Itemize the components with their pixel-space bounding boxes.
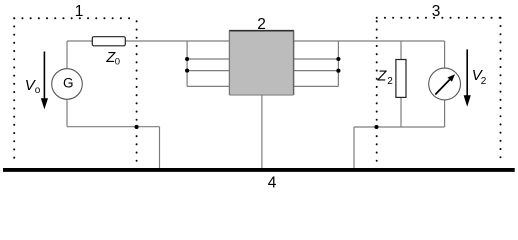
load voltage arrow V2 <box>466 49 468 97</box>
wire: Z2 bottom vertical <box>400 97 402 127</box>
wire: generator top vertical <box>66 41 68 68</box>
voltmeter U <box>429 68 461 100</box>
two-port network block 2 <box>229 31 293 95</box>
wire: right bottom return <box>354 126 445 128</box>
svg-text:2: 2 <box>481 76 487 87</box>
wire: right stub vertical <box>337 41 339 86</box>
svg-text:3: 3 <box>432 3 441 20</box>
wire: left port line 3 <box>187 70 229 72</box>
svg-text:Z: Z <box>377 69 388 85</box>
svg-text:2: 2 <box>387 76 393 87</box>
wire: left stub vertical <box>186 41 188 86</box>
node: left stub junction upper <box>185 57 189 61</box>
boundary box 1 (source side, dotted) <box>14 18 136 163</box>
wire: meter bottom vertical <box>444 100 446 127</box>
wire: block 2 bottom drop to ground <box>261 95 263 169</box>
wire: main top line Z0 to block 2 <box>125 40 229 42</box>
wire: right port line 4 <box>294 85 339 87</box>
source voltage arrow Vo <box>43 52 45 101</box>
ground bus line 4 <box>3 168 515 172</box>
wire: right drop to ground <box>353 127 355 169</box>
impedance Z0 <box>92 37 125 46</box>
wire: top line from generator corner to Z0 <box>67 40 92 42</box>
node: right stub junction upper <box>336 57 340 61</box>
wire: left drop to ground <box>159 127 161 169</box>
node: right port terminal dot <box>374 125 378 129</box>
boundary box 3 (load side, dotted) <box>377 18 501 164</box>
wire: meter top vertical <box>444 41 446 68</box>
wire: left bottom return <box>67 126 160 128</box>
node: right stub junction lower <box>336 69 340 73</box>
wire: right port line 2 <box>294 58 339 60</box>
wire: main top line block 2 to meter branch <box>294 40 445 42</box>
wire: Z2 top vertical <box>400 41 402 60</box>
wire: right port line 3 <box>294 70 339 72</box>
svg-text:2: 2 <box>257 16 266 33</box>
generator G <box>52 69 83 100</box>
svg-text:G: G <box>63 76 74 91</box>
wire: left port line 2 <box>187 58 229 60</box>
svg-text:4: 4 <box>268 175 277 192</box>
wire: left port line 4 <box>187 85 229 87</box>
voltmeter needle <box>435 80 449 95</box>
svg-text:0: 0 <box>115 56 120 67</box>
impedance Z2 <box>396 60 406 98</box>
node: left port terminal dot <box>135 125 139 129</box>
svg-text:1: 1 <box>75 3 84 20</box>
wire: generator bottom vertical <box>66 100 68 127</box>
node: left stub junction lower <box>185 69 189 73</box>
svg-text:o: o <box>35 85 41 96</box>
